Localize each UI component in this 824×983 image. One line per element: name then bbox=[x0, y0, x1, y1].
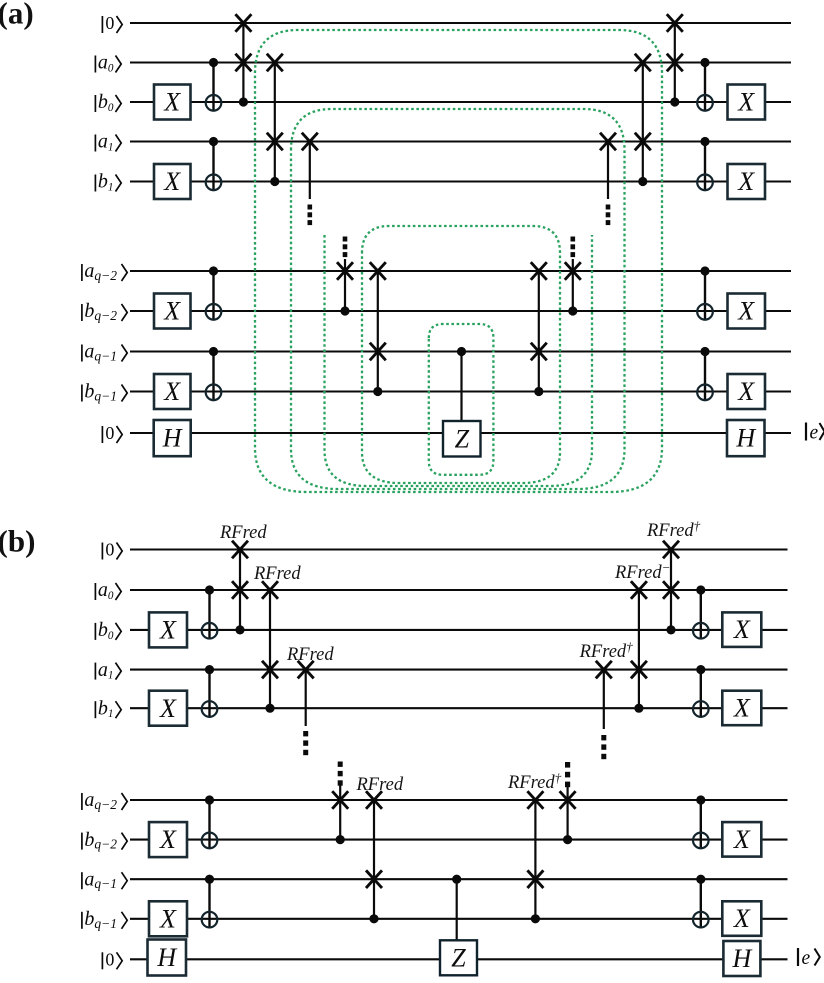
ket label row 8 fig a bbox=[81, 385, 83, 402]
svg-text:q−2: q−2 bbox=[94, 797, 117, 812]
CNOT right control row 1 (a) bbox=[700, 58, 709, 67]
wire row 4 fig a bbox=[130, 180, 791, 182]
svg-text:0: 0 bbox=[105, 950, 114, 970]
svg-text:q−1: q−1 bbox=[94, 916, 117, 931]
svg-text:q−2: q−2 bbox=[94, 308, 117, 323]
svg-text:(a): (a) bbox=[0, 0, 34, 31]
ket label row 5 fig b bbox=[81, 793, 83, 810]
svg-text:Z: Z bbox=[451, 943, 466, 972]
wire row 0 fig b bbox=[130, 548, 788, 550]
svg-text:b: b bbox=[84, 829, 94, 851]
ket label row 3 fig b bbox=[94, 663, 96, 680]
X gate right row 8 (b) bbox=[722, 901, 761, 936]
wire row 2 fig b bbox=[130, 629, 788, 631]
wire row 1 fig a bbox=[130, 61, 791, 63]
wire row 5 fig a bbox=[130, 270, 791, 272]
ket label row 0 fig a bbox=[101, 16, 103, 33]
fredkin F3 truncated (a) bbox=[309, 142, 311, 200]
X gate left row 2 (b) bbox=[149, 612, 187, 647]
svg-text:RFred: RFred bbox=[286, 645, 334, 665]
svg-text:H: H bbox=[156, 943, 177, 972]
CNOT left control row 1 (a) bbox=[209, 58, 218, 67]
svg-text:RFred†: RFred† bbox=[507, 770, 562, 793]
wire row 2 fig a bbox=[130, 101, 791, 103]
wire row 6 fig a bbox=[130, 310, 791, 312]
svg-text:RFred†: RFred† bbox=[579, 639, 634, 662]
H gate left ancilla (a) bbox=[154, 420, 191, 456]
svg-text:b: b bbox=[98, 619, 108, 641]
svg-text:0: 0 bbox=[108, 630, 114, 642]
X gate right row 4 (a) bbox=[728, 164, 766, 199]
wire row 5 fig b bbox=[130, 799, 788, 801]
svg-text:0: 0 bbox=[108, 590, 114, 602]
svg-text:a: a bbox=[84, 789, 94, 811]
svg-text:H: H bbox=[735, 424, 756, 453]
svg-text:b: b bbox=[98, 171, 108, 193]
svg-text:(b): (b) bbox=[0, 524, 35, 559]
X gate left row 4 (b) bbox=[149, 691, 187, 726]
X gate left row 6 (b) bbox=[149, 822, 187, 857]
X gate right row 6 (b) bbox=[722, 822, 761, 857]
svg-text:X: X bbox=[733, 694, 751, 723]
ket label row 5 fig a bbox=[81, 264, 83, 281]
CNOT left control row 7 (b) bbox=[205, 875, 214, 884]
controlled-Z (b) bbox=[452, 875, 461, 884]
wire row 0 fig a bbox=[130, 22, 791, 24]
svg-text:a: a bbox=[84, 868, 94, 890]
CNOT left control row 5 (b) bbox=[205, 795, 214, 804]
ket label row 9 fig b bbox=[101, 952, 103, 969]
svg-text:e: e bbox=[810, 423, 819, 444]
svg-text:X: X bbox=[159, 694, 177, 723]
svg-text:q−1: q−1 bbox=[94, 389, 117, 404]
CNOT right control row 3 (a) bbox=[700, 137, 709, 146]
CNOT right control row 7 (a) bbox=[700, 347, 709, 356]
svg-text:X: X bbox=[737, 377, 755, 406]
group box R1 outer (a) bbox=[255, 30, 662, 492]
svg-text:X: X bbox=[737, 88, 755, 117]
fredkin F4 truncated (a) bbox=[343, 237, 348, 242]
wire row 9 fig b bbox=[130, 958, 788, 960]
X gate left row 2 (a) bbox=[154, 85, 191, 120]
svg-text:0: 0 bbox=[108, 102, 114, 114]
svg-text:b: b bbox=[84, 381, 94, 403]
wire row 8 fig a bbox=[130, 390, 791, 392]
ket label row 2 fig a bbox=[94, 95, 96, 112]
svg-text:1: 1 bbox=[108, 142, 114, 154]
wire row 7 fig a bbox=[130, 350, 791, 352]
svg-text:e: e bbox=[802, 948, 811, 969]
svg-text:q−2: q−2 bbox=[94, 268, 117, 283]
wire row 3 fig a bbox=[130, 140, 791, 142]
svg-text:X: X bbox=[163, 377, 181, 406]
fredkin F1 (a) bbox=[242, 23, 244, 102]
ket label row 7 fig a bbox=[81, 345, 83, 362]
CNOT left control row 3 (b) bbox=[205, 665, 214, 674]
svg-text:X: X bbox=[163, 297, 181, 326]
X gate right row 2 (b) bbox=[722, 612, 761, 647]
ket label row 0 fig b bbox=[101, 543, 103, 560]
ket label row 6 fig a bbox=[81, 304, 83, 321]
CNOT left control row 7 (a) bbox=[209, 347, 218, 356]
svg-text:X: X bbox=[159, 825, 177, 854]
svg-text:b: b bbox=[84, 908, 94, 930]
svg-text:X: X bbox=[163, 167, 181, 196]
svg-text:RFred: RFred bbox=[219, 523, 267, 543]
CNOT left control row 5 (a) bbox=[209, 266, 218, 275]
svg-text:a: a bbox=[98, 579, 108, 601]
svg-text:0: 0 bbox=[105, 540, 114, 560]
X gate right row 8 (a) bbox=[728, 374, 766, 409]
fredkin F5 mirror (a) bbox=[538, 271, 540, 392]
svg-text:X: X bbox=[159, 904, 177, 933]
group box R3 truncated (a) bbox=[325, 235, 593, 486]
CNOT left control row 1 (b) bbox=[205, 585, 214, 594]
svg-text:1: 1 bbox=[108, 708, 114, 720]
CNOT right control row 5 (b) bbox=[696, 795, 705, 804]
svg-text:X: X bbox=[733, 825, 751, 854]
wire row 1 fig b bbox=[130, 589, 788, 591]
svg-text:X: X bbox=[159, 616, 177, 645]
svg-text:q−1: q−1 bbox=[94, 349, 117, 364]
svg-text:a: a bbox=[98, 131, 108, 153]
svg-text:Z: Z bbox=[455, 424, 470, 453]
group box around CZ (a) bbox=[429, 324, 494, 475]
X gate left row 6 (a) bbox=[154, 294, 191, 329]
svg-text:X: X bbox=[163, 88, 181, 117]
wire row 8 fig b bbox=[130, 918, 788, 920]
svg-text:a: a bbox=[98, 659, 108, 681]
ket label row 2 fig b bbox=[94, 623, 96, 640]
ket label row 1 fig a bbox=[94, 56, 96, 73]
H gate right ancilla (b) bbox=[723, 941, 760, 976]
CNOT left control row 3 (a) bbox=[209, 137, 218, 146]
svg-text:X: X bbox=[733, 615, 751, 644]
svg-text:X: X bbox=[733, 904, 751, 933]
svg-text:q−1: q−1 bbox=[94, 876, 117, 891]
ket label row 7 fig b bbox=[81, 872, 83, 889]
wire row 7 fig b bbox=[130, 878, 788, 880]
X gate right row 4 (b) bbox=[722, 691, 761, 726]
svg-text:a: a bbox=[84, 341, 94, 363]
svg-text:q−2: q−2 bbox=[94, 837, 117, 852]
X gate left row 8 (a) bbox=[154, 374, 191, 409]
svg-text:0: 0 bbox=[108, 63, 114, 75]
ket label row 4 fig a bbox=[94, 175, 96, 192]
svg-text:b: b bbox=[84, 300, 94, 322]
wire row 6 fig b bbox=[130, 839, 788, 841]
fredkin F1 mirror (a) bbox=[674, 23, 676, 102]
svg-text:b: b bbox=[98, 91, 108, 113]
fredkin F5 (a) bbox=[377, 271, 379, 392]
X gate left row 8 (b) bbox=[149, 901, 187, 936]
svg-text:b: b bbox=[98, 697, 108, 719]
svg-text:H: H bbox=[732, 944, 753, 973]
X gate right row 6 (a) bbox=[728, 294, 766, 329]
fredkin F2 (a) bbox=[274, 63, 276, 182]
svg-text:a: a bbox=[84, 260, 94, 282]
ket label row 8 fig b bbox=[81, 912, 83, 929]
controlled-Z (a) bbox=[457, 347, 466, 356]
wire row 9 fig a bbox=[130, 432, 791, 434]
svg-text:0: 0 bbox=[105, 423, 114, 443]
fredkin F3 mirror truncated (a) bbox=[607, 142, 609, 200]
fredkin F2 mirror (a) bbox=[642, 63, 644, 182]
fredkin F4 mirror truncated (a) bbox=[571, 237, 576, 242]
CNOT right control row 7 (b) bbox=[696, 875, 705, 884]
svg-text:RFred−: RFred− bbox=[614, 560, 670, 583]
H gate right ancilla (a) bbox=[727, 420, 765, 456]
svg-text:1: 1 bbox=[108, 182, 114, 194]
CNOT right control row 1 (b) bbox=[696, 585, 705, 594]
ket label row 4 fig b bbox=[94, 701, 96, 718]
svg-text:1: 1 bbox=[108, 670, 114, 682]
wire row 3 fig b bbox=[130, 669, 788, 671]
X gate left row 4 (a) bbox=[154, 164, 191, 199]
fredkin G4 mirror truncated (b) bbox=[565, 762, 570, 768]
output ket e (a) bbox=[805, 423, 807, 441]
svg-text:a: a bbox=[98, 52, 108, 74]
ket label row 9 fig a bbox=[101, 426, 103, 443]
ket label row 1 fig b bbox=[94, 583, 96, 600]
ket label row 3 fig a bbox=[94, 135, 96, 152]
X gate right row 2 (a) bbox=[728, 85, 766, 120]
group box R2 (a) bbox=[291, 109, 625, 489]
svg-text:X: X bbox=[737, 297, 755, 326]
output ket e (b) bbox=[797, 948, 799, 966]
CNOT right control row 3 (b) bbox=[696, 665, 705, 674]
svg-text:0: 0 bbox=[105, 13, 114, 33]
svg-text:X: X bbox=[737, 167, 755, 196]
group box R4 (a) bbox=[362, 226, 560, 483]
ket label row 6 fig b bbox=[81, 833, 83, 850]
svg-text:RFred†: RFred† bbox=[646, 518, 701, 541]
fredkin G4 truncated (b) bbox=[338, 762, 343, 767]
wire row 4 fig b bbox=[130, 707, 788, 709]
H gate left ancilla (b) bbox=[148, 940, 187, 976]
CNOT right control row 5 (a) bbox=[700, 266, 709, 275]
svg-text:H: H bbox=[162, 424, 183, 453]
